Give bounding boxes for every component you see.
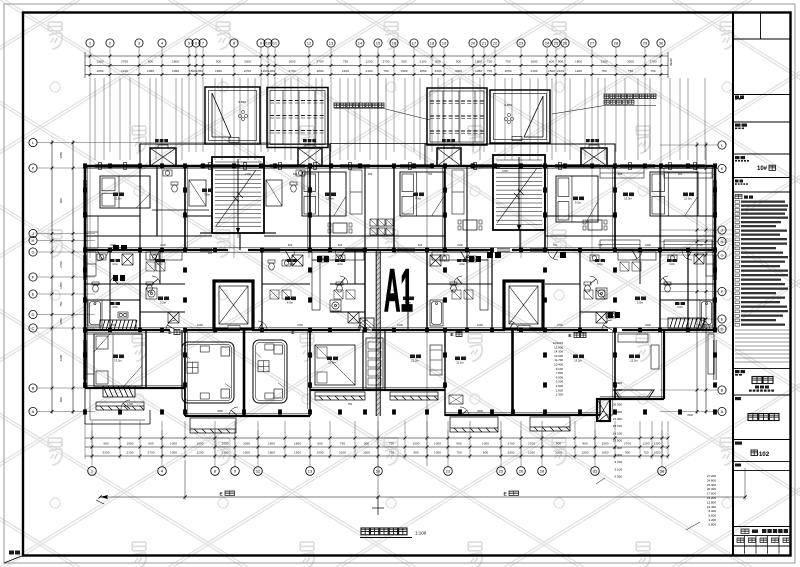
service band left xyxy=(140,144,330,166)
svg-text:900: 900 xyxy=(558,59,563,63)
wardrobe column center xyxy=(366,338,383,388)
svg-text:12: 12 xyxy=(307,41,312,46)
svg-text:3300: 3300 xyxy=(103,450,110,454)
unit label E-bian xyxy=(168,330,180,337)
svg-text:900: 900 xyxy=(582,441,587,445)
svg-text:900: 900 xyxy=(556,441,561,445)
svg-text:3300: 3300 xyxy=(508,450,515,454)
svg-text:2700: 2700 xyxy=(245,172,251,176)
svg-text:11.2m: 11.2m xyxy=(456,361,464,365)
wall inner parallel lines xyxy=(85,166,715,416)
door arcs xyxy=(97,250,710,420)
svg-text:23: 23 xyxy=(519,41,524,46)
svg-text:1050: 1050 xyxy=(172,69,179,73)
svg-text:2700: 2700 xyxy=(59,261,63,268)
bed upper-right bedroom 2 xyxy=(650,172,698,216)
svg-text:2100: 2100 xyxy=(457,243,463,247)
svg-text:750: 750 xyxy=(340,441,345,445)
svg-text:600: 600 xyxy=(59,198,63,203)
svg-text:3.200: 3.200 xyxy=(708,518,716,522)
svg-text:2700: 2700 xyxy=(317,59,324,63)
service band right xyxy=(425,144,615,166)
window schedule list center xyxy=(553,341,564,397)
svg-text:900: 900 xyxy=(368,172,373,176)
bed upper-left bedroom xyxy=(100,176,150,208)
svg-text:3300: 3300 xyxy=(687,413,693,417)
service band link line xyxy=(330,143,427,145)
upper band partition walls xyxy=(86,166,714,250)
svg-text:4.0m: 4.0m xyxy=(677,305,683,309)
svg-text:600: 600 xyxy=(483,450,488,454)
main wall top xyxy=(85,165,715,168)
bottom dimension chain lines xyxy=(85,437,668,439)
svg-text:J: J xyxy=(721,228,723,233)
svg-text:26: 26 xyxy=(519,469,524,474)
upper bathroom 2 xyxy=(266,180,282,206)
svg-text:25: 25 xyxy=(499,469,504,474)
svg-text:1200: 1200 xyxy=(127,402,133,406)
watermark crossing circles xyxy=(50,82,732,508)
svg-text:12.2m: 12.2m xyxy=(630,359,638,363)
dresser right living xyxy=(618,334,659,369)
roof box louvre left xyxy=(267,88,328,148)
svg-text:2700: 2700 xyxy=(148,450,155,454)
svg-text:3300: 3300 xyxy=(477,409,483,413)
svg-text:2100: 2100 xyxy=(531,69,538,73)
svg-text:4.650: 4.650 xyxy=(504,103,512,107)
top dimension ticks xyxy=(89,55,663,76)
svg-text:750: 750 xyxy=(643,450,648,454)
svg-text:4.0m: 4.0m xyxy=(112,262,118,266)
svg-text:27.200: 27.200 xyxy=(707,474,717,478)
svg-text:1500: 1500 xyxy=(294,450,301,454)
svg-text:1500: 1500 xyxy=(548,69,555,73)
svg-text:1050: 1050 xyxy=(434,441,441,445)
title block scale cell xyxy=(735,464,741,467)
title block drawing number cell xyxy=(735,442,742,445)
svg-text:1050: 1050 xyxy=(147,69,154,73)
svg-text:2100: 2100 xyxy=(121,69,128,73)
shaft boxes corridor xyxy=(113,245,566,258)
title block drawing name cell xyxy=(735,397,741,400)
svg-text:26: 26 xyxy=(563,41,568,46)
elevator top 2 xyxy=(298,145,322,166)
svg-text:2700: 2700 xyxy=(697,243,703,247)
svg-text:3.5m: 3.5m xyxy=(160,301,167,305)
svg-text:750: 750 xyxy=(505,59,510,63)
hatched louvre strip left xyxy=(100,320,137,330)
roof box louvre right xyxy=(427,88,487,145)
svg-text:750: 750 xyxy=(553,243,558,247)
top grid bubbles xyxy=(86,39,665,47)
svg-text:1200: 1200 xyxy=(643,441,650,445)
exterior wall hatch ticks xyxy=(84,170,716,385)
svg-text:2700: 2700 xyxy=(557,323,563,327)
interior walls xyxy=(110,144,688,416)
svg-text:750: 750 xyxy=(428,172,433,176)
svg-text:16.100: 16.100 xyxy=(613,431,623,435)
svg-text:1200: 1200 xyxy=(197,450,204,454)
svg-text:1800: 1800 xyxy=(268,450,275,454)
svg-text:14: 14 xyxy=(358,41,363,46)
svg-text:1500: 1500 xyxy=(401,69,408,73)
svg-text:20: 20 xyxy=(471,41,476,46)
unit label E-fan xyxy=(450,332,462,339)
upper bathroom 1 xyxy=(189,180,206,206)
svg-text:600: 600 xyxy=(549,59,554,63)
svg-text:24: 24 xyxy=(545,41,550,46)
svg-text:4.0m: 4.0m xyxy=(157,262,163,266)
svg-text:2100: 2100 xyxy=(557,69,564,73)
roof box machine room left xyxy=(205,87,260,144)
svg-text:D: D xyxy=(721,327,724,332)
svg-text:600: 600 xyxy=(338,243,343,247)
svg-text:30: 30 xyxy=(659,41,664,46)
svg-text:900: 900 xyxy=(103,441,108,445)
elevator top 3 xyxy=(437,145,461,166)
svg-text:19: 19 xyxy=(442,41,447,46)
duct shaft cluster center xyxy=(370,219,393,235)
svg-text:10.900: 10.900 xyxy=(613,446,623,450)
svg-text:2700: 2700 xyxy=(508,441,515,445)
svg-text:10.400: 10.400 xyxy=(707,505,717,509)
title block striped table xyxy=(735,330,789,362)
svg-text:3300: 3300 xyxy=(627,59,634,63)
svg-text:2100: 2100 xyxy=(160,243,166,247)
svg-text:13.4m: 13.4m xyxy=(326,197,334,201)
svg-text:4.0m: 4.0m xyxy=(287,301,294,305)
svg-text:1050: 1050 xyxy=(505,69,512,73)
svg-text:3300: 3300 xyxy=(244,59,251,63)
window marks corridor wall xyxy=(200,249,545,252)
svg-text:13.2m: 13.2m xyxy=(574,359,582,363)
svg-text:24.800: 24.800 xyxy=(707,478,717,482)
svg-text:7.6m: 7.6m xyxy=(204,193,211,197)
bottom grid lines xyxy=(92,430,662,467)
title block bottom table xyxy=(741,529,749,534)
stove burner blobs xyxy=(113,256,620,318)
svg-text:G: G xyxy=(720,253,723,258)
corridor wall xyxy=(85,249,228,251)
room labels xyxy=(113,193,124,197)
top grid lines xyxy=(90,47,661,258)
corner diagonal mark bottom-left xyxy=(4,551,23,564)
svg-text:1800: 1800 xyxy=(645,243,651,247)
corridor upper wall xyxy=(85,235,715,237)
sheet title standard floor plan xyxy=(360,496,427,538)
svg-text:3300: 3300 xyxy=(654,441,661,445)
left grid bubbles xyxy=(29,139,37,416)
window sill marks top wall xyxy=(99,163,697,170)
right dimension chains xyxy=(696,142,698,414)
svg-text:1050: 1050 xyxy=(434,450,441,454)
svg-text:750: 750 xyxy=(487,59,492,63)
svg-text:2700: 2700 xyxy=(607,413,613,417)
interior dimension annotations xyxy=(110,169,703,417)
svg-text:22.400: 22.400 xyxy=(707,483,717,487)
svg-text:4.650: 4.650 xyxy=(238,100,246,104)
right axis leader lines xyxy=(660,145,718,412)
svg-text:J: J xyxy=(32,231,34,236)
sofa group unit1 xyxy=(182,342,234,403)
svg-text:750: 750 xyxy=(389,450,394,454)
svg-text:900: 900 xyxy=(216,59,221,63)
svg-text:750: 750 xyxy=(456,450,461,454)
svg-text:1800: 1800 xyxy=(172,59,179,63)
bottom dimension numbers xyxy=(103,441,661,454)
svg-text:1200: 1200 xyxy=(528,450,535,454)
svg-text:2100: 2100 xyxy=(420,59,427,63)
svg-text:900: 900 xyxy=(456,441,461,445)
svg-text:27: 27 xyxy=(590,41,595,46)
svg-text:600: 600 xyxy=(288,243,293,247)
elevator top 4 xyxy=(581,145,607,166)
roof box machine room right xyxy=(490,90,550,143)
stair core right xyxy=(493,155,545,231)
hatched louvre strip right xyxy=(668,318,705,328)
svg-text:1500: 1500 xyxy=(268,441,275,445)
svg-text:3300: 3300 xyxy=(555,450,562,454)
section line left xyxy=(377,52,379,500)
bedroom marks second xyxy=(430,345,442,375)
structural columns xyxy=(83,163,717,414)
svg-text:1800: 1800 xyxy=(531,59,538,63)
svg-text:900: 900 xyxy=(401,59,406,63)
svg-text:600: 600 xyxy=(148,59,153,63)
svg-text:4.0m: 4.0m xyxy=(459,262,465,266)
svg-text:13.2m: 13.2m xyxy=(114,359,122,363)
svg-text:4.0m: 4.0m xyxy=(337,262,343,266)
svg-text:600: 600 xyxy=(59,397,63,402)
dimension extension lines top xyxy=(95,78,705,160)
elevator top 1 xyxy=(150,145,176,166)
mid band partition walls xyxy=(85,250,715,330)
dining table unit3 xyxy=(458,220,482,230)
svg-text:1050: 1050 xyxy=(222,441,229,445)
svg-text:2100: 2100 xyxy=(127,450,134,454)
svg-text:900: 900 xyxy=(678,172,683,176)
svg-text:1050: 1050 xyxy=(602,450,609,454)
svg-text:17: 17 xyxy=(412,41,417,46)
unit label E-bian-fan xyxy=(568,333,586,340)
stair core left xyxy=(212,157,264,238)
main wall right xyxy=(714,166,717,330)
bed mid-left bedroom xyxy=(302,172,346,216)
svg-text:5.700: 5.700 xyxy=(614,460,622,464)
svg-text:1500: 1500 xyxy=(602,441,609,445)
svg-text:1800: 1800 xyxy=(575,59,582,63)
svg-text:22: 22 xyxy=(493,41,498,46)
title block legend rows xyxy=(735,201,788,327)
svg-text:H: H xyxy=(32,238,35,243)
svg-text:1200: 1200 xyxy=(97,59,104,63)
svg-text:25: 25 xyxy=(554,41,559,46)
svg-text:19: 19 xyxy=(376,469,381,474)
svg-text:18: 18 xyxy=(430,41,435,46)
svg-text:750: 750 xyxy=(487,69,492,73)
svg-text:21.300: 21.300 xyxy=(613,417,623,421)
svg-text:E: E xyxy=(503,492,506,497)
svg-text:13: 13 xyxy=(308,469,313,474)
svg-text:750: 750 xyxy=(59,301,63,306)
svg-text:8.000: 8.000 xyxy=(708,509,716,513)
window triple lines xyxy=(83,164,716,380)
flue shaft bottom right xyxy=(597,399,610,421)
svg-text:15: 15 xyxy=(376,41,381,46)
svg-text:2100: 2100 xyxy=(339,450,346,454)
svg-text:1:100: 1:100 xyxy=(415,531,427,536)
svg-text:750: 750 xyxy=(650,69,655,73)
svg-text:750: 750 xyxy=(389,441,394,445)
party wall center hatched xyxy=(376,250,380,416)
svg-text:3.5m: 3.5m xyxy=(637,301,644,305)
svg-text:4.0m: 4.0m xyxy=(112,305,118,309)
svg-text:E: E xyxy=(32,292,35,297)
svg-text:900: 900 xyxy=(364,441,369,445)
svg-text:1050: 1050 xyxy=(127,441,134,445)
bed lower-left bedroom xyxy=(94,334,142,386)
svg-text:1200: 1200 xyxy=(59,354,63,361)
svg-text:1200: 1200 xyxy=(575,69,582,73)
sofa group unit2 xyxy=(253,340,287,403)
svg-text:1500: 1500 xyxy=(413,441,420,445)
wardrobe strips xyxy=(86,168,714,276)
svg-text:2700: 2700 xyxy=(528,441,535,445)
svg-text:15.200: 15.200 xyxy=(707,496,717,500)
svg-text:K: K xyxy=(32,166,35,171)
main wall left xyxy=(84,166,87,388)
svg-text:1050: 1050 xyxy=(502,169,508,173)
title block small labels xyxy=(735,96,749,185)
svg-text:7.9m: 7.9m xyxy=(415,197,422,201)
svg-text:900: 900 xyxy=(625,450,630,454)
svg-text:2700: 2700 xyxy=(297,323,303,327)
elevator labels xyxy=(155,139,168,142)
svg-text:750: 750 xyxy=(598,243,603,247)
svg-text:4.0m: 4.0m xyxy=(597,262,603,266)
upper wall left unit xyxy=(152,166,209,236)
svg-text:9.0m: 9.0m xyxy=(575,201,582,205)
svg-text:1050: 1050 xyxy=(482,441,489,445)
flue hatched small xyxy=(360,318,374,330)
top dimension chain lines xyxy=(85,55,668,57)
svg-text:26.500: 26.500 xyxy=(613,403,623,407)
svg-text:1800: 1800 xyxy=(317,69,324,73)
dimension extension lines bottom xyxy=(85,421,668,459)
svg-text:28: 28 xyxy=(540,469,545,474)
elevation list right xyxy=(613,381,623,479)
svg-text:12.800: 12.800 xyxy=(707,500,717,504)
svg-text:2100: 2100 xyxy=(342,69,349,73)
svg-text:3.100: 3.100 xyxy=(614,467,622,471)
svg-text:3300: 3300 xyxy=(601,59,608,63)
svg-text:2700: 2700 xyxy=(244,69,251,73)
svg-text:36: 36 xyxy=(660,469,665,474)
svg-text:1050: 1050 xyxy=(59,282,63,289)
svg-text:12.2m: 12.2m xyxy=(411,359,419,363)
mid wall xyxy=(85,329,170,331)
left porch outline xyxy=(85,388,150,424)
svg-text:13.0m: 13.0m xyxy=(624,197,632,201)
section line right xyxy=(426,120,428,466)
main wall bottom segments xyxy=(85,387,185,389)
kitchen counters xyxy=(86,252,714,374)
svg-text:750: 750 xyxy=(383,69,388,73)
svg-text:1800: 1800 xyxy=(289,59,296,63)
svg-text:1050: 1050 xyxy=(170,450,177,454)
svg-text:900: 900 xyxy=(413,450,418,454)
bottom grid bubbles xyxy=(88,467,667,476)
svg-text:13.500: 13.500 xyxy=(613,439,623,443)
svg-text:B: B xyxy=(721,388,724,393)
svg-text:12.5m: 12.5m xyxy=(114,197,122,201)
svg-text:600: 600 xyxy=(148,441,153,445)
svg-text:600: 600 xyxy=(317,441,322,445)
elevator core left bottom xyxy=(214,281,253,329)
title block frame xyxy=(733,13,791,556)
bottom dimension ticks xyxy=(91,437,670,458)
svg-text:2700: 2700 xyxy=(624,441,631,445)
svg-text:10#: 10# xyxy=(757,166,768,172)
svg-text:4.0m: 4.0m xyxy=(289,262,295,266)
left dimension chains xyxy=(51,140,53,414)
svg-text:A: A xyxy=(32,409,35,414)
mid band room labels xyxy=(110,259,120,262)
svg-text:1050: 1050 xyxy=(196,69,203,73)
svg-text:1500: 1500 xyxy=(582,450,589,454)
svg-text:2700: 2700 xyxy=(383,59,390,63)
svg-text:600: 600 xyxy=(418,243,423,247)
bathroom fixtures band xyxy=(92,282,99,292)
svg-text:17.600: 17.600 xyxy=(707,492,717,496)
svg-text:C: C xyxy=(32,326,35,331)
svg-text:8.300: 8.300 xyxy=(614,453,622,457)
svg-text:E: E xyxy=(219,492,222,497)
mid band door arcs xyxy=(110,276,668,284)
mid band closets xyxy=(146,262,641,299)
left axis leader lines xyxy=(37,143,270,412)
svg-text:2700: 2700 xyxy=(289,69,296,73)
svg-text:3300: 3300 xyxy=(217,409,223,413)
svg-text:1050: 1050 xyxy=(59,152,63,159)
svg-text:1050: 1050 xyxy=(654,450,661,454)
angled bay window right living xyxy=(614,390,654,399)
svg-text:18.700: 18.700 xyxy=(613,424,623,428)
svg-text:A1: A1 xyxy=(384,257,413,324)
svg-text:1050: 1050 xyxy=(170,441,177,445)
svg-text:12.5m: 12.5m xyxy=(684,197,692,201)
svg-text:B: B xyxy=(32,386,35,391)
svg-text:1800: 1800 xyxy=(475,59,482,63)
right grid bubbles xyxy=(718,141,726,416)
bedroom group center-right xyxy=(315,345,355,385)
svg-text:3300: 3300 xyxy=(435,69,442,73)
svg-text:3300: 3300 xyxy=(645,323,651,327)
svg-text:600: 600 xyxy=(293,172,298,176)
svg-text:1050: 1050 xyxy=(97,69,104,73)
elevator core right bottom xyxy=(504,281,543,329)
svg-text:3300: 3300 xyxy=(222,450,229,454)
svg-text:750: 750 xyxy=(343,59,348,63)
svg-text:28: 28 xyxy=(614,41,619,46)
svg-text:900: 900 xyxy=(456,59,461,63)
svg-text:3300: 3300 xyxy=(243,441,250,445)
svg-text:3300: 3300 xyxy=(363,450,370,454)
svg-text:1050: 1050 xyxy=(477,323,483,327)
svg-text:29: 29 xyxy=(643,41,648,46)
svg-text:600: 600 xyxy=(618,172,623,176)
svg-text:1200: 1200 xyxy=(366,59,373,63)
